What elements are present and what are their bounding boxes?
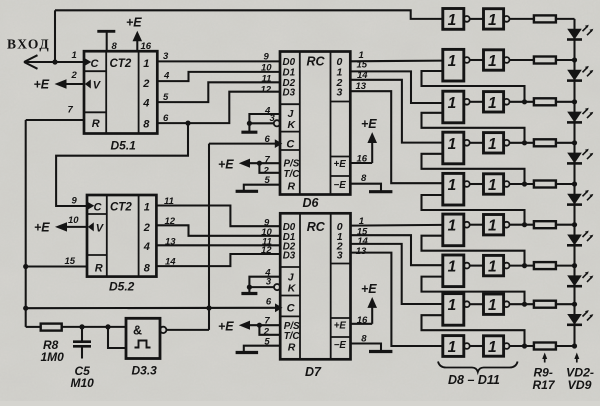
svg-text:RC: RC [307,55,326,69]
svg-text:D3: D3 [283,250,296,261]
register D6 K bubble [274,120,280,126]
wire D5.1 out2 to D6 D1 [157,72,280,81]
svg-text:D1: D1 [283,68,296,79]
svg-text:3: 3 [337,87,343,99]
svg-text:CT2: CT2 [110,58,132,70]
wire row1 resistor to LED chain [556,18,575,20]
register D6 body [280,52,350,195]
wire row9 between gates [470,345,484,347]
gate D8-D11 row1 first inverter [443,9,464,30]
gate row2 second output bubble [504,57,510,63]
svg-text:&: & [133,324,142,338]
one-shot D3.3 output bubble [160,327,166,333]
gate D8-D11 row4 second inverter [484,133,504,153]
register D7 body [280,213,350,359]
wire D5.1 R to left rail [26,119,85,121]
power +E arrow at D6 P/S [239,159,250,168]
wire input to D5.1 C [24,61,85,63]
register D7 C dynamic input [275,303,283,312]
wire row4 between gates [470,142,484,144]
node LED chain row7 [572,263,577,268]
counter D5.2 V input triangle [88,222,94,231]
LED VD5 [567,153,582,164]
wire reset net horizontal [26,307,278,309]
svg-text:1: 1 [448,218,457,235]
wire row4 to resistor [510,142,534,144]
wire row8 resistor to LED chain [556,303,575,305]
svg-text:R: R [95,263,103,275]
wire D6 pin8 -E ground [350,184,381,192]
wire D7 out0 to row6 [351,224,443,227]
svg-text:13: 13 [356,246,367,257]
ground D6 JK [248,123,250,132]
gate D8-D11 row8 second inverter [484,294,504,314]
svg-text:+E: +E [334,159,347,170]
wire D7 out2 to row8 [351,244,443,304]
wire D7 J tie [249,277,280,287]
resistor R14 [534,221,556,228]
gate D8-D11 row3 second inverter [484,92,504,112]
svg-text:1: 1 [488,218,497,235]
ground pin 8 common stub [106,31,108,51]
wire input branch vertical [54,10,56,62]
power +E arrow at D6 pin16 [371,142,373,163]
svg-text:D7: D7 [305,365,322,379]
svg-text:M10: M10 [71,376,95,390]
wire row7 feedback stub to second input [422,277,525,305]
svg-text:1: 1 [144,202,150,214]
gate D8-D11 row7 second inverter [484,255,504,275]
gate D8-D11 row5 first NOR [443,173,464,205]
gate D8-D11 row8 first NOR [443,294,464,326]
wire clock to D6 C [209,143,278,145]
svg-text:R17: R17 [533,378,556,392]
svg-text:9: 9 [264,52,270,63]
wire D5.2 R to rail [26,265,88,267]
wire R8 to D3.3 [62,326,127,328]
svg-text:10: 10 [261,63,272,74]
svg-text:9: 9 [72,196,78,207]
svg-text:D3.3: D3.3 [132,364,158,378]
register D6 right cell dividers [331,101,351,103]
node LED chain row4 [572,140,577,145]
svg-text:15: 15 [65,256,76,267]
wire D7 K tie [249,286,274,288]
svg-text:D5.1: D5.1 [111,139,137,153]
svg-text:3: 3 [337,249,343,261]
svg-text:CT2: CT2 [110,202,132,214]
wire D5.2 out1 to D7 D0 [156,206,280,227]
wire D6 P/S to +E [247,162,280,164]
svg-text:+E: +E [361,282,377,296]
node LED chain row6 [572,222,577,227]
power +E pin 16 arrow [136,41,138,52]
LED VD4 [567,112,582,123]
wire row6 resistor to LED chain [556,224,575,226]
wire D7 R to ground [244,346,280,353]
svg-text:+E: +E [34,221,50,235]
wire D5.1 out8 to D6 D3 [157,92,280,123]
node LED chain row9 [572,343,577,348]
gate row9 second output bubble [504,343,510,349]
node LED chain row3 [572,99,577,104]
gate row9 first output bubble [464,343,470,349]
wire row3 to resistor [510,101,534,103]
counter D5.2 column separators [106,195,108,277]
node C5 top [79,324,84,329]
brace under gates D8-D11 [438,362,518,373]
gate row4 first output bubble [464,140,470,146]
gate row8 first output bubble [464,301,470,307]
node D7 PS TC junction [257,323,262,328]
wire row4 feedback stub to second input [422,154,525,184]
wire row4 resistor to LED chain [556,142,575,144]
wire D6 J tie [249,114,280,123]
gate row6 first output bubble [464,222,470,228]
resistor R10 [534,57,556,64]
node D6 JK junction [247,121,252,126]
resistor R16 [534,301,556,308]
wire left rail [25,120,27,327]
counter D5.2 C dynamic input [88,202,95,210]
wire row9 to resistor [510,345,534,347]
svg-text:1: 1 [448,136,457,153]
wire clock line vertical [208,144,210,330]
one-shot D3.3 body [126,318,160,358]
wire D6 out0 to row2 [350,60,443,63]
node row9 feedback junction [522,343,527,348]
wire row6 to resistor [510,224,534,226]
LED VD9 [567,314,582,325]
wire D5.1 out1 to D6 D0 [157,60,280,62]
svg-text:+E: +E [361,117,377,131]
wire D7 pin16 +E [351,323,373,325]
LED VD2 [567,29,582,40]
svg-text:1: 1 [448,177,457,194]
register D7 column separators [299,213,301,359]
gate D8-D11 row6 first NOR [443,214,464,246]
one-shot D3.3 pulse symbol [135,341,151,348]
wire D7 pin8 -E ground [351,344,382,352]
svg-text:1: 1 [488,12,497,29]
svg-text:RC: RC [307,220,326,234]
power +E arrow at D5.2 V [55,222,67,231]
svg-text:10: 10 [68,215,79,226]
svg-text:C: C [287,303,296,315]
svg-text:4: 4 [142,97,149,109]
gate row6 second output bubble [504,222,510,228]
counter D5.1 column separators [105,51,107,133]
wire row7 to resistor [510,265,534,267]
wire D7 out3 to row9 [351,253,443,346]
LED VD6 [567,194,582,205]
gate row8 second output bubble [504,301,510,307]
svg-text:+E: +E [34,78,50,92]
svg-text:1M0: 1M0 [41,350,65,364]
svg-text:4: 4 [163,71,170,82]
svg-text:4: 4 [143,241,150,253]
gate D8-D11 row1 second inverter [484,9,504,29]
svg-text:8: 8 [144,263,151,275]
svg-text:−E: −E [334,340,347,351]
wire D6 out3 to row5 [350,91,443,183]
gate row4 second output bubble [504,140,510,146]
svg-text:3: 3 [266,277,272,288]
svg-text:1: 1 [72,50,77,61]
gate row1 second output bubble [504,16,510,22]
gate row1 first output bubble [464,16,470,22]
svg-text:3: 3 [163,51,169,62]
wire D5.2 out2 to D7 D1 [156,225,280,236]
wire row5 resistor to LED chain [556,183,575,185]
svg-text:ВХОД: ВХОД [7,36,50,51]
wire row9 resistor to LED chain [556,345,575,347]
wire row6 between gates [470,224,484,226]
register D7 K bubble [274,284,280,290]
gate D8-D11 row9 first inverter [443,336,464,357]
gate row7 first output bubble [464,263,470,269]
node LED chain row8 [572,302,577,307]
wire rail to R8 [26,326,41,328]
svg-text:1: 1 [488,136,497,153]
LED VD7 [567,235,582,246]
LED VD3 [567,70,582,81]
wire D7 T/C tie [259,325,280,335]
svg-text:R: R [92,118,100,130]
arrow to LED column [576,356,578,363]
svg-text:2: 2 [71,70,78,81]
wire row2 feedback stub to second input [422,71,525,102]
gate D8-D11 row2 second inverter [484,50,504,70]
svg-text:1: 1 [488,95,497,112]
svg-text:1: 1 [488,259,497,276]
wire row6 feedback stub to second input [422,236,525,266]
wire D7 P/S to +E [247,324,280,326]
wire D3.3 lower input [108,327,127,348]
wire D6 pin16 +E [350,162,372,164]
resistor R17 [534,343,556,350]
svg-text:C: C [286,139,295,151]
resistor R9 [534,15,556,22]
node input junction [52,59,57,64]
counter D5.1 cell dividers [84,70,106,72]
wire row1 to resistor [510,18,534,20]
wire row1 between gates [470,18,484,20]
wire row2 to resistor [510,59,534,61]
ground D7 pin8 [369,350,392,353]
node LED chain row2 [572,57,577,62]
svg-text:R: R [288,342,296,354]
power +E arrow at D7 P/S [239,321,250,330]
svg-text:+E: +E [126,16,142,30]
svg-text:+E: +E [334,321,347,332]
counter D5.1 body [84,51,157,133]
wire D5.2 out8 to D7 D3 [156,254,280,266]
svg-text:6: 6 [265,134,271,145]
wire row7 resistor to LED chain [556,265,575,267]
node rail to reset net [23,306,28,311]
gate D8-D11 row2 first NOR [443,49,464,81]
gate row7 second output bubble [504,263,510,269]
wire LED chain vertical [573,19,575,346]
gate D8-D11 row5 second inverter [484,174,504,194]
ground D6 R [236,190,259,193]
svg-text:C: C [94,202,103,214]
svg-text:1: 1 [488,339,497,356]
svg-text:−E: −E [334,180,347,191]
wire row3 between gates [470,101,484,103]
LED VD8 [567,275,582,286]
svg-text:7: 7 [68,105,74,116]
ground D6 pin8 [369,190,392,193]
wire D5.2 V to +E [66,226,88,228]
svg-text:R: R [288,180,296,192]
input arrow VHOD [24,55,38,62]
svg-text:1: 1 [448,53,457,70]
svg-text:1: 1 [448,12,457,29]
wire row3 resistor to LED chain [556,101,575,103]
wire row5 feedback stub to second input [422,195,525,225]
counter D5.2 body [87,195,156,277]
gate row3 first output bubble [464,99,470,105]
svg-text:+E: +E [218,320,234,334]
node row3 feedback junction [522,99,527,104]
svg-text:8: 8 [112,41,118,52]
power +E arrow at D7 pin16 [371,307,373,324]
wire row8 to resistor [510,303,534,305]
svg-text:2: 2 [143,222,150,234]
node D6 PS TC junction [257,161,262,166]
svg-text:D6: D6 [303,196,320,210]
register D6 column separators [299,52,301,195]
gate row2 first output bubble [464,57,470,63]
svg-text:+E: +E [218,158,234,172]
gate D8-D11 row7 first NOR [443,255,464,287]
resistor R13 [534,181,556,188]
counter D5.2 cell dividers [87,213,107,215]
wire D5.1 out4 to D6 D2 [157,82,280,102]
svg-text:1: 1 [488,177,497,194]
resistor R8 [41,324,62,331]
svg-text:12: 12 [261,85,272,96]
wire row8 feedback stub to second input [422,315,525,346]
svg-text:16: 16 [141,41,152,52]
wire D6 T/C tie [259,163,280,173]
node D5.1 out8 branch [185,121,190,126]
wire D6 out2 to row4 [350,80,443,143]
gate row5 first output bubble [464,181,470,187]
svg-text:8: 8 [361,173,367,184]
node D7 JK junction [247,285,252,290]
svg-text:12: 12 [261,245,272,256]
resistor R15 [534,262,556,269]
svg-text:D3: D3 [283,88,296,99]
register D6 left cell dividers [280,103,300,105]
svg-text:1: 1 [448,297,457,314]
node row7 feedback junction [522,263,527,268]
wire D5.1 out8 to D5.2 C [56,123,188,206]
node rail to D5.2 R [23,264,28,269]
svg-text:1: 1 [448,259,457,276]
node row8 feedback junction [522,302,527,307]
wire D7 out1 to row7 [351,235,443,265]
counter D5.1 V input triangle [85,80,91,89]
register D6 C dynamic input [275,139,283,148]
node row5 feedback junction [522,181,527,186]
wire D3.3 output [166,329,209,331]
resistor R11 [534,98,556,105]
node clock line at reset net [206,305,211,310]
wire row5 between gates [470,183,484,185]
node row6 feedback junction [522,222,527,227]
ground D7 JK [248,287,250,293]
wire D6 K tie [249,122,273,124]
arrow to resistors column [544,356,546,363]
svg-text:1: 1 [488,297,497,314]
resistor R12 [534,139,556,146]
wire D5.1 V to +E [66,83,85,85]
counter D5.1 C dynamic input [85,58,92,66]
wire row7 between gates [470,265,484,267]
svg-text:D5.2: D5.2 [109,280,135,294]
node row4 feedback junction [522,140,527,145]
gate row5 second output bubble [504,181,510,187]
svg-text:D8 – D11: D8 – D11 [448,373,500,387]
register D7 left cell dividers [280,266,300,268]
wire row3 feedback stub to second input [422,113,525,143]
wire row2 resistor to LED chain [556,59,575,61]
svg-text:C: C [91,58,100,70]
gate D8-D11 row6 second inverter [484,215,504,235]
wire input top feed to row 1 [55,10,443,19]
svg-text:VD9: VD9 [568,378,592,392]
svg-text:11: 11 [262,73,272,84]
svg-text:T/C: T/C [284,331,301,342]
node LED chain row5 [572,181,577,186]
wire row2 between gates [470,59,484,61]
wire D5.2 out4 to D7 D2 [156,244,280,246]
svg-text:1: 1 [143,58,149,70]
capacitor C5 [81,327,83,341]
register D7 right cell dividers [331,263,351,265]
svg-text:6: 6 [266,297,272,308]
svg-text:8: 8 [143,119,150,131]
svg-text:1: 1 [488,53,497,70]
gate D8-D11 row3 first NOR [443,91,464,123]
gate D8-D11 row9 second inverter [484,336,504,356]
wire D6 out1 to row3 [350,71,443,103]
node D3.3 second input branch [105,324,110,329]
wire row5 to resistor [510,183,534,185]
gate D8-D11 row4 first NOR [443,132,464,164]
wire row8 between gates [470,303,484,305]
power +E arrow at D5.1 V [55,79,67,88]
gate row3 second output bubble [504,99,510,105]
svg-text:1: 1 [448,339,457,356]
svg-text:1: 1 [448,95,457,112]
wire D6 R to ground [244,185,280,192]
svg-text:T/C: T/C [284,169,301,180]
svg-text:2: 2 [142,78,149,90]
ground D7 R [236,351,259,354]
